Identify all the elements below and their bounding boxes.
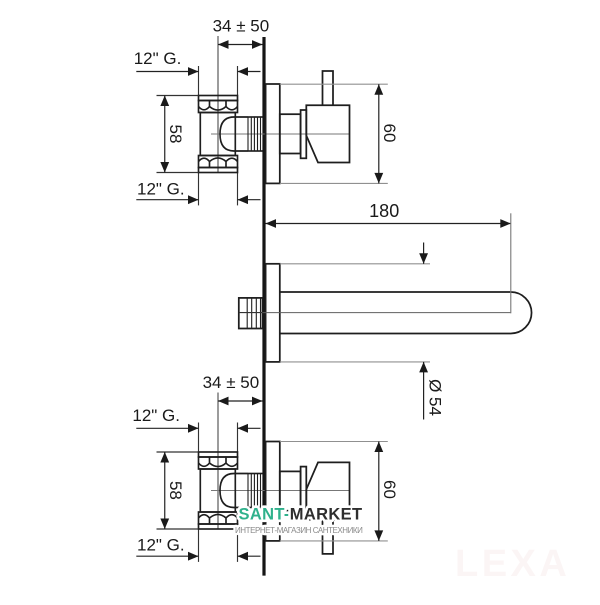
svg-text:180: 180 (369, 201, 399, 221)
svg-text:12" G.: 12" G. (132, 406, 180, 425)
svg-text:12" G.: 12" G. (137, 180, 185, 199)
svg-text:ИНТЕРНЕТ-МАГАЗИН САНТЕХНИКИ: ИНТЕРНЕТ-МАГАЗИН САНТЕХНИКИ (235, 526, 363, 535)
svg-text:12" G.: 12" G. (134, 49, 182, 68)
svg-text:Ø 54: Ø 54 (426, 379, 445, 416)
svg-text:LEXA: LEXA (455, 543, 570, 585)
svg-text:60: 60 (380, 124, 399, 143)
svg-text:60: 60 (380, 480, 399, 499)
svg-text:58: 58 (166, 481, 185, 500)
svg-text:SANT-MARKET: SANT-MARKET (239, 505, 363, 523)
svg-text:12" G.: 12" G. (137, 535, 185, 554)
svg-text:58: 58 (166, 125, 185, 144)
svg-text:34 ± 50: 34 ± 50 (213, 17, 270, 36)
svg-text:34 ± 50: 34 ± 50 (203, 373, 260, 392)
